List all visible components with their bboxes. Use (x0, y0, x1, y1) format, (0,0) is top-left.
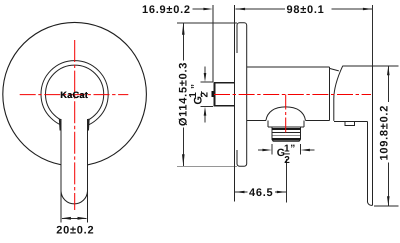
arrowheads (61, 8, 389, 220)
arrow 98 right (363, 8, 373, 11)
svg-text:20±0.2: 20±0.2 (56, 224, 94, 236)
arrow outlet G right (300, 149, 310, 152)
cap top edge + 109.8 top extension line (342, 65, 398, 67)
extension line right of 98 dim (371, 5, 373, 66)
dim 46.5 right extension line (285, 159, 287, 203)
valve body bottom edge left segment (247, 119, 266, 121)
front view handle ring outer circle (41, 61, 108, 128)
outlet G 1/2 fraction bar (284, 153, 290, 155)
109.8 bottom extension line (374, 205, 398, 207)
extension line inlet tip (212, 5, 214, 82)
arrow 109.8 down (387, 196, 390, 206)
arrow 46.5 left (235, 191, 245, 194)
svg-text:2: 2 (284, 155, 290, 166)
arrow 46.5 right (277, 191, 287, 194)
outlet G1/2 dim extension lines (272, 144, 301, 155)
outlet dome (266, 107, 306, 121)
dia 114.5 dimension line segments (182, 23, 184, 166)
handle right edge + extension line (87, 119, 89, 222)
side view horizontal centerline (214, 94, 371, 96)
front view horizontal centerline (20, 94, 129, 96)
front view handle ring inner circle (46, 65, 104, 123)
inlet G 1/2 fraction bar (201, 91, 203, 97)
outlet nut (268, 120, 304, 127)
dia 114.5 top extension line (177, 22, 237, 24)
109.8 dimension line segments (387, 66, 389, 206)
front view vertical centerline (74, 40, 76, 210)
svg-text:98±0.1: 98±0.1 (286, 4, 324, 16)
arrow inlet G up (204, 107, 207, 116)
svg-text:16.9±0.2: 16.9±0.2 (142, 4, 191, 16)
dia 114.5 bottom extension line (177, 165, 237, 167)
inlet thread left edge thick (213, 82, 215, 107)
inlet rect thick edges (213, 83, 234, 106)
inlet G1/2 dim extension lines (200, 82, 213, 107)
valve body bottom edge right segment (306, 119, 330, 121)
handle bottom arc (61, 191, 88, 204)
arrow 109.8 up (387, 66, 390, 76)
inlet G1/2 dim arrow tails (204, 67, 206, 123)
outlet thread sides (272, 127, 301, 139)
arrow inlet G down (204, 73, 207, 82)
handle left edge + extension line (60, 119, 62, 222)
svg-text:109.8±0.2: 109.8±0.2 (378, 105, 390, 161)
outlet G 1/2 inch label (277, 144, 296, 166)
arrow 20 dim right (78, 217, 88, 220)
outlet thread crest thick bottom (272, 138, 301, 140)
dimension 20±0.2 line (62, 217, 86, 219)
cap bottom tab (345, 121, 354, 125)
red centerlines (20, 40, 371, 210)
svg-text:1: 1 (188, 91, 199, 97)
valve body top edge (247, 66, 330, 68)
outlet thread bottom chamfer (272, 139, 301, 141)
handle lever front white fill (61, 119, 88, 204)
arrow 98 left (236, 8, 246, 11)
handle neck flare left (59, 119, 62, 131)
svg-text:”: ” (190, 83, 201, 89)
lever bottom rounded corner (367, 201, 372, 205)
handle neck flare right (87, 119, 90, 131)
outlet G1/2 dim arrow tails (258, 149, 314, 151)
arrow dia114.5 down (182, 154, 185, 166)
handle cap left edge (334, 66, 343, 121)
lever right edge (371, 66, 373, 206)
arrow outlet G left (262, 149, 272, 152)
front view escutcheon outer circle (3, 22, 147, 166)
arrow 20 dim left (61, 217, 71, 220)
inlet thread tip nub (211, 91, 213, 97)
outlet vertical centerline (285, 95, 287, 136)
handle cap bottom edge (334, 120, 368, 122)
side view plate front face + extension line (234, 5, 236, 202)
arrow dia114.5 up (182, 23, 185, 35)
body to cap slant line (329, 68, 338, 71)
svg-text:”: ” (290, 144, 296, 155)
dim 98 line right part (332, 8, 373, 10)
dim 98 line left part (236, 8, 285, 10)
svg-text:KaCat: KaCat (61, 90, 89, 100)
inlet G 1/2 inch label rotated (188, 83, 210, 104)
lever left edge (366, 121, 368, 201)
side view plate rounded back (237, 23, 247, 166)
svg-text:46.5: 46.5 (249, 187, 273, 199)
outlet thread crest thick top (272, 128, 301, 130)
valve body right edge (328, 67, 330, 120)
arrow 16.9 (203, 8, 213, 11)
dim 46.5 line (235, 191, 286, 193)
outlet thread mid lines (272, 132, 301, 135)
dim 16.9 line (193, 8, 205, 10)
